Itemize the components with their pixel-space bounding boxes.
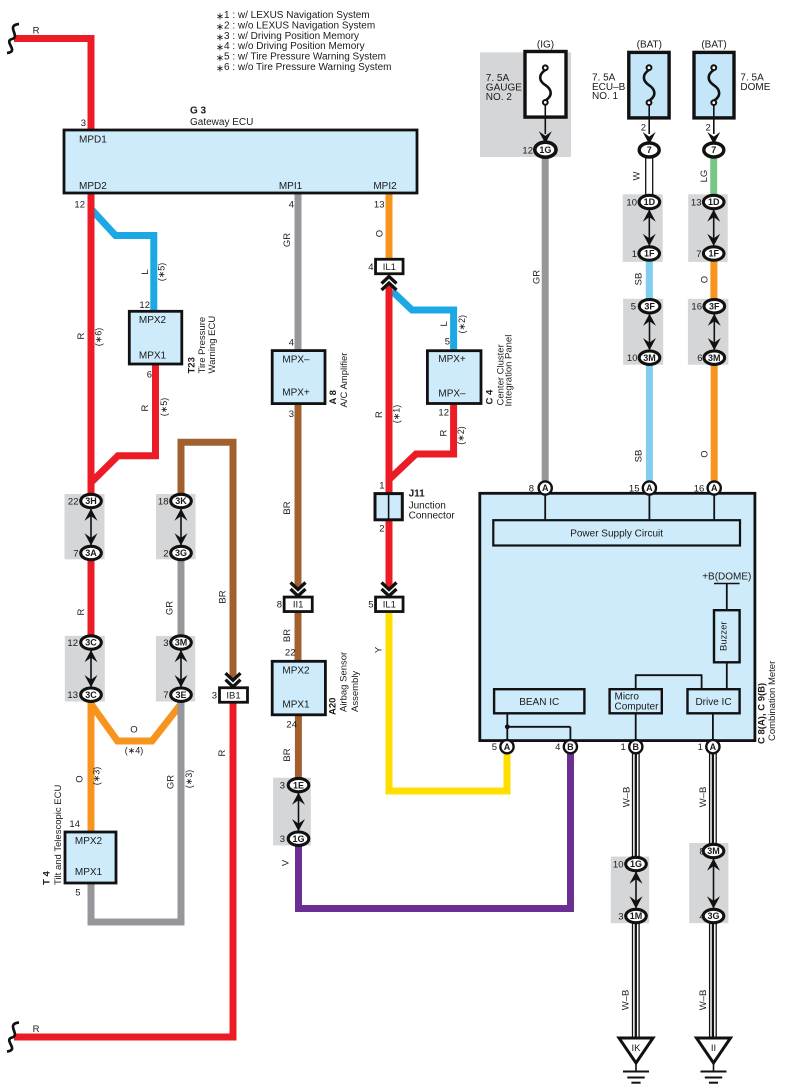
svg-text:Airbag Sensor: Airbag Sensor [339,652,350,712]
svg-text:II1: II1 [293,600,304,611]
svg-text:Integration Panel: Integration Panel [504,335,515,407]
wire SB connector 3M to Combination Meter pin 15 A [646,364,653,483]
svg-text:1: 1 [379,481,384,492]
wire LG fuse DOME terminal 7 to connector 1D [710,156,717,197]
connector 1 A on meter bottom [706,740,719,753]
svg-text:∗: ∗ [216,63,224,74]
Micro Computer block [610,689,662,713]
svg-text:A: A [710,742,717,752]
svg-text:5: 5 [492,742,497,753]
break symbol top-left battery wire [7,24,19,53]
wire W-B Meter pin 1 A to connector 3M [709,753,711,845]
svg-text:R: R [217,749,228,756]
connector pair 3M to 3E [171,636,192,649]
svg-text:MPX1: MPX1 [75,867,103,878]
svg-text:6: 6 [147,370,152,381]
svg-text:7: 7 [696,249,701,260]
svg-text:1: 1 [698,742,703,753]
svg-text:DOME: DOME [740,82,770,93]
svg-text:MPX1: MPX1 [139,351,167,362]
svg-text:6: 6 [697,353,702,364]
svg-text:SB: SB [634,273,645,286]
svg-text:V: V [281,859,292,866]
internal line BEAN IC to pins 5 A and 4 B with junction dot [506,713,508,741]
svg-text:10: 10 [627,353,638,364]
junction IL1 lower with down chevrons [382,583,397,590]
svg-text:W: W [632,171,643,180]
svg-text:4: 4 [368,262,373,273]
wire O from connector 3C to T4 pin 14 [88,700,95,833]
svg-text:O: O [700,276,711,283]
wire BR from A8 pin 3 to junction II1 [295,402,302,588]
internal line pin 15 A to Power Supply Circuit [648,495,650,521]
svg-text:5: 5 [445,337,450,348]
svg-text:B: B [567,742,574,752]
svg-text:(∗3): (∗3) [184,770,194,789]
svg-text:BR: BR [282,501,293,514]
gray background connector pair 3H-3A [65,494,105,559]
wire R from J11 pin 2 to junction IL1 lower [386,519,393,588]
connector pair 3M to 3G bottom [703,844,724,857]
amplifier A8 A/C Amplifier box [272,351,325,404]
svg-text:IL1: IL1 [383,262,396,273]
wire L branch (*2) from IL1 to C4 pin 5 [392,291,454,352]
wire W fuse ECU-B terminal 7 to connector 1D [645,157,647,197]
svg-text:O: O [375,230,386,237]
svg-text:IK: IK [632,1043,642,1054]
svg-text:4: 4 [555,742,560,753]
wire V from connector 1G to Combination Meter pin 4 B [299,752,571,909]
svg-text:1D: 1D [644,197,656,207]
svg-text:3M: 3M [708,353,721,363]
wire Y from junction IL1 to Combination Meter pin 5 A [389,610,507,791]
svg-text:8: 8 [699,846,704,857]
connector 4 B on meter bottom [564,740,577,753]
svg-text:T 4: T 4 [42,871,53,885]
svg-text:W–B: W–B [698,990,709,1011]
svg-text:Computer: Computer [615,702,660,713]
svg-text:13: 13 [374,200,385,211]
BEAN IC block [494,689,584,713]
svg-text:NO. 2: NO. 2 [486,92,513,103]
svg-text:NO. 1: NO. 1 [592,91,619,102]
terminal 7 oval right [704,143,724,157]
svg-text:2: 2 [641,123,646,134]
wire O from Gateway MPI2 pin 13 to junction IL1 [386,192,393,261]
svg-text:W–B: W–B [621,990,632,1011]
gray background connector pair 1E-1G [273,778,311,846]
fuse ECU-B pin 2 line and arrow to terminal 7 [648,105,650,134]
connector pair 1D to 1F left [639,195,660,208]
svg-text:R: R [140,404,151,411]
svg-text:R: R [439,430,450,437]
fuse DOME pin 2 line and arrow to terminal 7 [713,105,715,134]
svg-text:MPD2: MPD2 [79,181,107,192]
gray background connector pair 1D-1F right [688,194,728,262]
svg-text:A: A [646,483,653,493]
terminal 7 oval left [639,143,659,157]
svg-text:3: 3 [280,834,285,845]
svg-text:10: 10 [613,859,624,870]
svg-text:1F: 1F [708,249,719,259]
svg-text:8: 8 [529,483,534,494]
connector 1 B on meter bottom [629,740,642,753]
svg-text:G 3: G 3 [190,106,207,117]
wire BR from A20 pin 24 to connector 1E [295,714,302,779]
svg-text:3C: 3C [85,638,97,648]
break symbol bottom-left battery wire [7,1023,19,1052]
wire R connector 3A to connector 3C [88,558,95,637]
wire R (*2) from C4 pin 12 joining main R wire [388,402,454,481]
svg-text:O: O [130,725,137,736]
svg-text:(IG): (IG) [537,40,554,51]
svg-text:(∗5): (∗5) [157,263,167,282]
wire O connector 3M to Combination Meter pin 16 A [711,364,718,483]
svg-text:R: R [76,332,87,339]
svg-text:(BAT): (BAT) [637,40,662,51]
svg-text:7: 7 [73,548,78,559]
wire W-B Meter pin 1 B to connector 1G [632,753,634,858]
svg-text:GR: GR [282,233,293,247]
svg-text:12: 12 [74,200,85,211]
connector pair 3H to 3A [81,494,102,507]
svg-text:22: 22 [285,648,296,659]
svg-text:3G: 3G [707,911,719,921]
fuse GAUGE output line and arrow to connector 1G [544,105,546,134]
svg-text:6 : w/o Tire Pressure Warning: 6 : w/o Tire Pressure Warning System [224,62,391,73]
svg-text:L: L [439,321,450,326]
svg-text:R: R [374,411,385,418]
gray background connector pair 3C-3C [65,636,105,702]
svg-text:(∗5): (∗5) [159,398,169,417]
svg-text:3: 3 [163,638,168,649]
svg-text:16: 16 [691,302,702,313]
svg-text:(∗2): (∗2) [457,315,467,334]
svg-text:12: 12 [522,145,533,156]
svg-text:7: 7 [163,690,168,701]
gray background connector pair 3F-3M right [688,299,729,365]
svg-text:3: 3 [81,118,86,129]
svg-text:13: 13 [691,197,702,208]
svg-text:10: 10 [626,197,637,208]
svg-text:12: 12 [139,300,150,311]
svg-text:Connector: Connector [409,511,456,522]
svg-text:IL1: IL1 [383,600,396,611]
connector 15 A on meter top [643,481,656,494]
internal line Buzzer to Drive IC [726,662,728,689]
junction IB1 with down chevrons [226,673,241,680]
wire O branch (*4) from 3C to 3E [91,704,181,741]
Buzzer block [714,610,740,662]
svg-text:A 8: A 8 [328,390,339,404]
svg-text:MPX+: MPX+ [438,354,466,365]
svg-text:O: O [75,775,86,782]
ECU G3 Gateway ECU box [64,130,417,193]
svg-text:3F: 3F [644,301,655,311]
svg-text:BR: BR [282,748,293,761]
svg-text:14: 14 [69,819,80,830]
ground IK [619,1038,653,1063]
svg-text:5: 5 [631,302,636,313]
connector pair 3C to 3C [81,636,102,649]
gray background connector pair 3K-3G [156,494,196,559]
svg-text:3A: 3A [85,548,97,558]
svg-text:MPX–: MPX– [282,355,310,366]
svg-text:1G: 1G [630,859,642,869]
svg-text:(BAT): (BAT) [701,40,726,51]
internal line Micro Computer to pin 1 B [635,713,637,741]
svg-text:MPX2: MPX2 [75,836,103,847]
svg-text:24: 24 [286,720,297,731]
svg-text:(∗4): (∗4) [125,746,144,756]
connector pair 1G to 1M bottom [626,857,647,870]
wire GR from fuse GAUGE connector 1G to Combination Meter pin 8 A [542,156,549,482]
svg-text:GR: GR [166,775,177,789]
svg-text:(∗3): (∗3) [92,767,102,786]
svg-text:Assembly: Assembly [350,671,361,712]
svg-text:3G: 3G [175,548,187,558]
wire R from junction IB1 to battery break bottom [14,701,233,1037]
wire R from Gateway MPD2 pin 12 down to connector 3H [88,192,95,495]
svg-text:W–B: W–B [698,787,709,808]
svg-text:4: 4 [289,338,294,349]
svg-text:2: 2 [163,548,168,559]
svg-text:MPI2: MPI2 [373,181,397,192]
svg-text:15: 15 [629,483,640,494]
wire L branch from node MPD2 to T23 pin 12 [92,210,154,312]
svg-text:A20: A20 [328,698,339,715]
svg-text:7: 7 [711,145,716,155]
svg-text:Combination Meter: Combination Meter [767,661,778,741]
svg-text:BEAN IC: BEAN IC [519,697,559,708]
internal line +B(DOME) to Buzzer [726,584,728,611]
fuse 7.5A ECU-B NO.1 box [629,52,669,118]
svg-text:16: 16 [694,483,705,494]
svg-text:MPX2: MPX2 [282,666,310,677]
svg-text:18: 18 [158,496,169,507]
svg-text:4: 4 [289,200,294,211]
internal line pin 8 A to Power Supply Circuit [544,495,546,521]
svg-text:3: 3 [618,911,623,922]
junction II1 with down chevrons [291,583,306,590]
internal line Drive IC to pin 1 A [712,713,714,741]
fuse 7.5A GAUGE NO.2 box [525,52,566,118]
svg-text:1: 1 [632,249,637,260]
connector 16 A on meter top [708,481,721,494]
svg-text:8: 8 [277,600,282,611]
svg-text:Drive IC: Drive IC [695,697,731,708]
internal line pin 16 A to Power Supply Circuit [713,495,715,521]
svg-text:1M: 1M [630,911,643,921]
svg-text:MPX2: MPX2 [139,315,167,326]
connector pair 1D to 1F right [703,195,724,208]
svg-text:12: 12 [438,407,449,418]
connector 5 A on meter bottom [500,740,513,753]
Drive IC block [688,689,740,713]
svg-text:A: A [504,742,511,752]
svg-text:IB1: IB1 [226,690,240,701]
svg-text:3: 3 [289,409,294,420]
svg-text:1G: 1G [292,834,304,844]
svg-text:2: 2 [706,123,711,134]
svg-text:5: 5 [368,600,373,611]
svg-text:4: 4 [699,911,704,922]
fuse 7.5A DOME box [694,52,734,118]
svg-text:+B(DOME): +B(DOME) [702,572,751,583]
svg-text:1E: 1E [293,780,304,790]
svg-text:GR: GR [165,601,176,615]
junction IL1 upper with up chevrons [376,259,404,274]
svg-text:MPI1: MPI1 [279,181,303,192]
svg-text:A: A [711,483,718,493]
svg-text:BR: BR [282,629,293,642]
wire W-B connector 1M to ground IK [632,923,634,1039]
svg-text:R: R [33,1024,40,1035]
svg-text:3: 3 [212,690,217,701]
svg-text:3M: 3M [175,638,188,648]
svg-text:Gateway ECU: Gateway ECU [190,117,253,128]
svg-text:MPD1: MPD1 [79,135,107,146]
connector 8 A on meter top [539,481,552,494]
internal line Micro Computer to Drive IC [635,675,637,689]
svg-text:J11: J11 [409,489,426,500]
svg-text:SB: SB [634,450,645,463]
gray background fuse GAUGE NO.2 [480,52,571,157]
wire R from battery break to Gateway ECU pin 3 [14,39,91,132]
svg-text:W–B: W–B [622,787,633,808]
connector pair 1E to 1G [288,778,309,791]
wire W-B connector 3G to ground II [709,923,711,1039]
wire O connector 1F to connector 3F right [710,259,717,301]
svg-text:3: 3 [280,781,285,792]
svg-text:7: 7 [647,145,652,155]
svg-text:MPX–: MPX– [438,389,466,400]
svg-text:Tilt and Telescopic ECU: Tilt and Telescopic ECU [53,785,64,885]
svg-text:Buzzer: Buzzer [719,621,730,651]
svg-text:5: 5 [75,887,80,898]
svg-text:3E: 3E [175,690,186,700]
svg-text:13: 13 [67,690,78,701]
wire SB connector 1F to connector 3F left [646,259,653,301]
svg-text:GR: GR [532,270,543,284]
svg-text:Power Supply Circuit: Power Supply Circuit [570,529,663,540]
gray background connector pair 1D-1F left [623,194,663,262]
svg-text:1G: 1G [539,145,551,155]
svg-text:BR: BR [218,590,229,603]
svg-text:12: 12 [67,638,78,649]
Combination Meter C8(A) C9(B) box [480,493,755,740]
wire R from T23 pin 6 joining main R wire [90,363,156,484]
ECU T23 Tire Pressure Warning ECU box [129,311,182,364]
connector 1G under fuse GAUGE [535,142,556,157]
svg-text:Warning ECU: Warning ECU [207,316,218,374]
svg-text:II: II [711,1043,716,1054]
svg-text:T23: T23 [187,357,198,373]
svg-text:3F: 3F [709,301,720,311]
svg-text:R: R [76,608,87,615]
panel C4 Center Cluster Integration Panel box [427,351,481,404]
svg-text:3M: 3M [643,353,656,363]
svg-text:2: 2 [379,524,384,535]
gray background connector pair 1G-1M [611,857,649,924]
svg-text:(∗2): (∗2) [456,426,466,445]
svg-text:1F: 1F [644,249,655,259]
ground II [697,1038,731,1063]
wire BR from junction II1 to A20 pin 22 [295,610,302,662]
wire R (*1) from junction IL1 to J11 pin 1 [386,286,393,495]
svg-text:22: 22 [68,496,79,507]
svg-text:1D: 1D [708,197,720,207]
svg-text:C 4: C 4 [485,389,496,405]
svg-text:A/C Amplifier: A/C Amplifier [339,353,350,408]
svg-text:O: O [700,450,711,457]
svg-text:3C: 3C [85,690,97,700]
svg-text:1: 1 [621,742,626,753]
svg-text:L: L [140,269,151,274]
svg-text:(∗6): (∗6) [94,328,104,347]
svg-text:3K: 3K [175,496,187,506]
gray background connector pair 3M-3E [156,636,195,702]
sensor A20 Airbag Sensor Assembly box [272,661,325,715]
wire GR connector 3G to connector 3M [178,558,185,637]
wire BR from connector 3K to junction IB1 [181,442,233,678]
svg-text:(∗1): (∗1) [392,405,402,424]
Power Supply Circuit block [493,520,740,545]
wire GR loop from connector 3E to T4 pin 5 [91,700,181,922]
svg-text:MPX+: MPX+ [282,388,310,399]
junction connector J11 box [375,494,402,520]
ECU T4 Tilt and Telescopic ECU box [65,832,116,883]
svg-text:Y: Y [374,646,385,653]
connector pair 3F to 3M right [704,300,725,313]
connector pair 3K to 3G [171,494,192,507]
svg-text:B: B [633,742,640,752]
gray background connector pair 3F-3M left [623,299,663,365]
svg-text:3M: 3M [707,846,720,856]
svg-text:MPX1: MPX1 [282,700,310,711]
gray background connector pair 3M-3G bottom [689,843,728,923]
svg-text:R: R [33,26,40,37]
svg-text:3H: 3H [85,496,97,506]
svg-text:A: A [542,483,549,493]
connector pair 3F to 3M left [639,300,660,313]
wire GR from Gateway MPI1 pin 4 to A8 pin 4 [295,192,302,352]
svg-text:LG: LG [699,170,710,183]
